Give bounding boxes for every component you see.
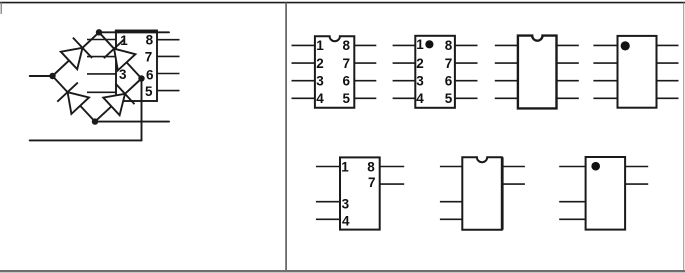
svg-text:5: 5	[445, 91, 453, 106]
svg-text:7: 7	[342, 56, 350, 71]
frame left border stub	[0, 2, 2, 14]
svg-text:1: 1	[316, 38, 324, 53]
svg-text:1: 1	[341, 160, 349, 175]
wire AC input left (node L to left edge)	[30, 75, 53, 77]
wire edge L-T	[53, 32, 100, 76]
U1 pin 4 stub	[87, 91, 116, 93]
wire node B output right	[95, 121, 169, 123]
svg-text:3: 3	[316, 74, 324, 89]
svg-text:2: 2	[316, 56, 324, 71]
svg-text:7: 7	[445, 56, 453, 71]
svg-text:4: 4	[416, 91, 424, 106]
IC F body with notch	[462, 157, 502, 230]
svg-text:4: 4	[342, 214, 350, 229]
IC F pin stubs left (1,3,4)	[440, 166, 462, 168]
svg-text:8: 8	[367, 160, 375, 175]
IC B body	[415, 36, 455, 108]
node R junction dot	[138, 75, 144, 81]
svg-text:2: 2	[416, 56, 424, 71]
svg-text:5: 5	[342, 91, 350, 106]
svg-text:8: 8	[445, 38, 453, 53]
IC C pin stubs left	[495, 44, 518, 46]
IC B pin stubs left	[393, 44, 416, 46]
svg-text:4: 4	[316, 91, 324, 106]
IC E pin stubs right (8,7)	[380, 166, 405, 168]
IC D body	[618, 36, 657, 108]
svg-text:8: 8	[342, 38, 350, 53]
svg-text:6: 6	[146, 67, 154, 82]
wire node R down	[141, 79, 143, 141]
U1 pin 1 stub	[87, 39, 116, 41]
diode D1 top-left (L to T)	[61, 48, 83, 69]
IC G pin stubs right (8,7)	[625, 166, 648, 168]
svg-text:6: 6	[342, 74, 350, 89]
wire node T output right	[99, 31, 169, 33]
IC F pin stubs right (8,7)	[502, 166, 525, 168]
IC E body	[340, 157, 380, 229]
IC B pin stubs right	[455, 44, 478, 46]
U1 pin 6 stub	[157, 73, 180, 75]
frame right border	[683, 3, 685, 270]
svg-text:1: 1	[416, 37, 424, 52]
IC G body	[586, 157, 626, 230]
svg-text:3: 3	[342, 196, 350, 211]
U1 pin 3 stub	[87, 73, 116, 75]
svg-text:5: 5	[145, 84, 153, 99]
IC D pin-1 index dot	[621, 41, 630, 50]
node B junction dot	[92, 118, 98, 124]
IC B pin-1 index dot	[425, 40, 433, 48]
frame top border	[0, 2, 685, 4]
column divider	[285, 3, 287, 270]
U1 pin 8 stub	[157, 39, 180, 41]
wire bottom run left	[30, 139, 142, 141]
IC F thick right edge	[501, 157, 504, 230]
U1 pin 7 stub	[157, 55, 180, 57]
svg-text:3: 3	[416, 74, 424, 89]
node T junction dot	[96, 29, 102, 35]
IC U1 DIP-8 body	[116, 31, 157, 102]
IC D pin stubs right	[657, 44, 679, 46]
IC C pin stubs right	[557, 44, 579, 46]
svg-text:8: 8	[146, 32, 154, 47]
IC C body with notch	[518, 36, 557, 109]
IC G pin-1 index dot	[591, 162, 600, 171]
wire edge R-T	[99, 32, 142, 78]
IC A pin stubs right	[354, 44, 376, 46]
frame bottom border	[0, 270, 685, 272]
wire edge B-R	[95, 79, 142, 122]
U1 pin 5 stub	[157, 90, 180, 92]
IC G pin stubs left (1,3,4)	[559, 166, 585, 168]
svg-text:6: 6	[445, 74, 453, 89]
node L junction dot	[49, 73, 55, 79]
wire edge B-L	[53, 76, 96, 122]
IC E pin stubs left (1,3,4)	[316, 166, 340, 168]
IC U1 thick top bar	[115, 30, 158, 33]
diode D2 bottom-left (B to L)	[68, 92, 89, 114]
svg-text:7: 7	[145, 49, 153, 64]
U1 pin 2 stub	[87, 56, 116, 58]
diode D3 top-right (R to T)	[114, 49, 135, 71]
IC A pin stubs left	[292, 44, 316, 46]
svg-text:7: 7	[368, 175, 376, 190]
diode D4 bottom-right (B to R)	[103, 94, 125, 115]
IC A body with notch	[315, 36, 354, 108]
IC D pin stubs left	[593, 44, 617, 46]
